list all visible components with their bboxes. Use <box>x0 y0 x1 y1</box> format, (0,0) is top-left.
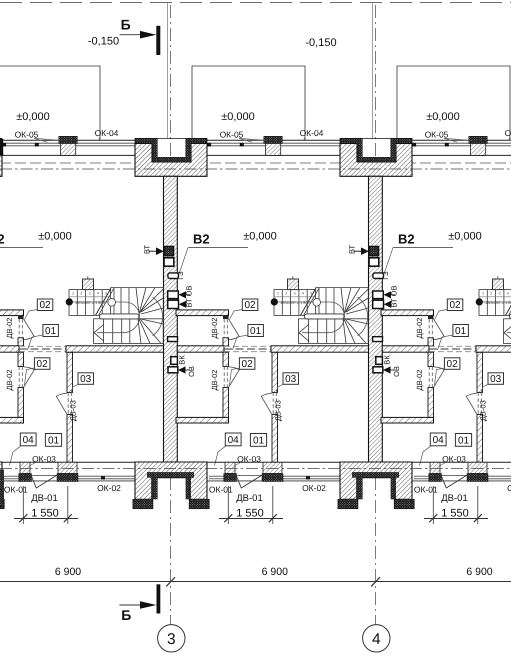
bottom dimension line 6900 row <box>0 577 511 586</box>
svg-text:Б: Б <box>121 17 131 33</box>
svg-text:Б: Б <box>121 607 131 623</box>
svg-text:3: 3 <box>167 631 176 648</box>
roof dashed line top <box>0 2 511 4</box>
svg-text:6 900: 6 900 <box>55 566 81 578</box>
svg-text:4: 4 <box>372 631 381 648</box>
svg-text:-0,150: -0,150 <box>305 37 336 49</box>
grid line 3 <box>171 5 376 625</box>
grid line 4 <box>375 5 377 157</box>
left edge wall cut top <box>0 139 3 156</box>
section mark B top <box>88 17 160 56</box>
grid bubble 4 <box>363 625 390 652</box>
svg-text:-0,150: -0,150 <box>88 36 119 48</box>
section mark B bottom <box>119 584 160 623</box>
left edge wall cut bottom <box>0 470 4 507</box>
svg-text:6 900: 6 900 <box>466 566 492 578</box>
dashed eaves line upper band <box>0 162 511 164</box>
axis dash-dot upper <box>0 168 511 170</box>
grid bubble 3 <box>158 625 185 652</box>
svg-text:6 900: 6 900 <box>262 566 288 578</box>
axis dash-dot lower <box>0 468 511 470</box>
